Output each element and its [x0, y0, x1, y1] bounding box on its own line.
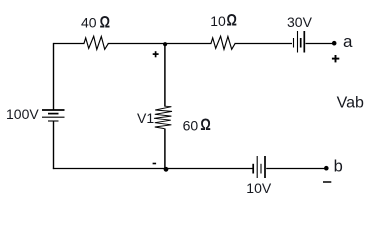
resistor R3 60ohm vertical [154, 106, 172, 128]
svg-text:b: b [334, 158, 343, 176]
wire battery to node b [266, 168, 326, 170]
svg-text:60: 60 [183, 117, 199, 133]
svg-text:a: a [343, 32, 353, 51]
svg-text:Vab: Vab [337, 95, 364, 112]
wire left vertical bottom [53, 121, 55, 169]
wire middle vertical top [164, 44, 166, 107]
svg-text:Ω: Ω [200, 116, 210, 134]
wire bottom left segment [53, 168, 253, 170]
svg-text:V1: V1 [137, 110, 154, 126]
svg-text:Ω: Ω [227, 12, 237, 30]
node top junction [163, 42, 167, 46]
wire battery to node a [306, 43, 335, 45]
wire top-left segment [54, 43, 85, 45]
wire middle vertical bottom [164, 129, 166, 169]
label plus at a [332, 55, 339, 62]
svg-text:40: 40 [81, 14, 97, 30]
battery V2 30V [294, 31, 305, 53]
wire top-middle segment [108, 43, 212, 45]
label plus at V1 top [153, 51, 159, 57]
battery V3 10V [253, 156, 265, 178]
wire top right of R2 [235, 43, 293, 45]
svg-text:30V: 30V [287, 14, 313, 30]
svg-text:100V: 100V [6, 106, 39, 122]
label minus at b [323, 181, 331, 183]
svg-text:Ω: Ω [100, 13, 110, 31]
label minus at V1 bottom [153, 163, 157, 165]
svg-text:10: 10 [210, 13, 226, 29]
node b dot [324, 166, 329, 171]
svg-text:10V: 10V [246, 180, 272, 196]
battery V1 100V source [42, 110, 65, 121]
wire left vertical top [53, 43, 55, 110]
resistor R1 40ohm [84, 36, 109, 49]
node a dot [332, 41, 337, 46]
node bottom junction [164, 167, 169, 172]
resistor R2 10ohm [211, 36, 235, 49]
